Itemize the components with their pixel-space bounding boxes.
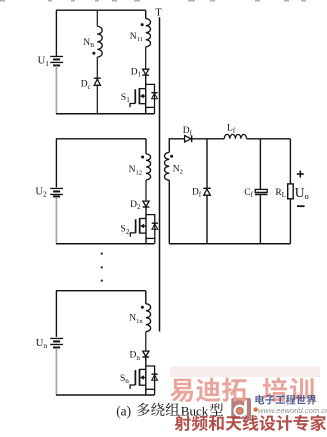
diode D1 bbox=[142, 69, 149, 75]
wire C_f top lead bbox=[259, 139, 261, 190]
minus sign output polarity bbox=[297, 205, 305, 207]
wire N1n top lead bbox=[145, 291, 147, 304]
wire N12 top lead bbox=[145, 139, 147, 154]
wire freewheel diode bottom lead bbox=[206, 195, 208, 244]
polarity dot N_B bbox=[92, 52, 95, 55]
polarity dot N1n bbox=[141, 306, 144, 309]
battery Un bbox=[50, 338, 63, 347]
wire U2 negative lead bbox=[55, 197, 57, 244]
wire U1 positive lead bbox=[55, 10, 57, 56]
svg-text:www.eeworld.com.cn: www.eeworld.com.cn bbox=[258, 406, 327, 415]
cell 2 bottom rail wire bbox=[56, 243, 154, 245]
transistor Sn bbox=[130, 369, 146, 389]
svg-text:(a): (a) bbox=[116, 404, 131, 419]
ellipsis continuation dots bbox=[101, 253, 103, 282]
winding N11 bbox=[146, 19, 151, 47]
wire D2 to S2 bbox=[145, 207, 147, 244]
winding N12 bbox=[146, 154, 151, 180]
winding N_B bbox=[97, 26, 102, 57]
plus sign output polarity bbox=[297, 171, 304, 178]
winding N1n bbox=[146, 304, 151, 332]
wire N11 to D1 bbox=[145, 47, 147, 69]
wire N2 bottom lead bbox=[168, 180, 170, 244]
wire R_L top lead bbox=[289, 139, 291, 184]
wire U2 positive lead bbox=[55, 139, 57, 188]
watermark faint ghost band bbox=[170, 367, 320, 378]
wire C_f bottom lead bbox=[259, 195, 261, 244]
battery U1 bbox=[50, 56, 63, 65]
watermark text 培训 bbox=[263, 377, 314, 402]
cell 1 top rail wire bbox=[56, 9, 146, 11]
polarity dot N11 bbox=[141, 23, 144, 26]
diode D2 bbox=[143, 201, 150, 207]
wire Un negative lead bbox=[55, 348, 57, 395]
body diode of S2 bbox=[146, 215, 158, 244]
polarity dot N2 bbox=[170, 155, 173, 158]
wire D1 to S1 bbox=[145, 75, 147, 114]
capacitor C_f bbox=[255, 189, 267, 194]
caption 多绕组 bbox=[137, 403, 180, 417]
cell n top rail wire bbox=[56, 290, 146, 292]
wire N12 to D2 bbox=[145, 180, 147, 201]
transformer core T bbox=[159, 17, 161, 331]
body diode of Sn bbox=[146, 366, 158, 395]
wire U1 negative lead bbox=[55, 66, 57, 114]
wire N1n to Dn bbox=[145, 332, 147, 352]
watermark text 易迪拓 bbox=[170, 378, 246, 403]
wire N_B to D_c bbox=[96, 57, 98, 78]
diode D_f series bbox=[185, 136, 192, 142]
polarity dot N12 bbox=[141, 156, 144, 159]
output bottom rail wire bbox=[169, 243, 290, 245]
cell 2 top rail wire bbox=[56, 138, 146, 140]
stray scan marks top edge bbox=[0, 0, 306, 2]
wire D_c to bottom rail bbox=[96, 84, 98, 113]
svg-text:T: T bbox=[155, 7, 162, 18]
wire R_L bottom lead bbox=[289, 199, 291, 244]
resistor R_L bbox=[288, 184, 294, 199]
cell 1 bottom rail wire bbox=[56, 113, 155, 115]
wire freewheel diode top lead bbox=[206, 139, 208, 188]
wire N_B top lead bbox=[96, 10, 98, 26]
transistor S2 bbox=[130, 218, 146, 237]
body diode of S1 bbox=[146, 84, 158, 113]
watermark logo eeworld box bbox=[231, 398, 251, 419]
transistor S1 bbox=[130, 88, 146, 107]
diode D_f freewheel bbox=[203, 188, 210, 195]
wire N11 top lead bbox=[145, 10, 147, 18]
watermark text 射频和天线设计专家 bbox=[175, 415, 326, 431]
watermark text 电子工程世界 bbox=[255, 395, 316, 405]
watermark url www.eeworld.com.cn bbox=[253, 407, 257, 411]
wire Un positive lead bbox=[55, 291, 57, 337]
inductor L_f bbox=[224, 134, 246, 138]
caption 型 bbox=[210, 403, 223, 416]
diode Dn bbox=[142, 351, 149, 357]
diode D_c bbox=[94, 78, 101, 85]
winding N2 bbox=[165, 152, 170, 180]
battery U2 bbox=[50, 188, 63, 196]
cell n bottom rail wire bbox=[56, 394, 154, 396]
wire secondary top lead bbox=[169, 139, 184, 153]
wire L_f to output node bbox=[247, 138, 291, 140]
wire Dn to Sn bbox=[145, 357, 147, 395]
wire D_f to L_f bbox=[192, 138, 225, 140]
